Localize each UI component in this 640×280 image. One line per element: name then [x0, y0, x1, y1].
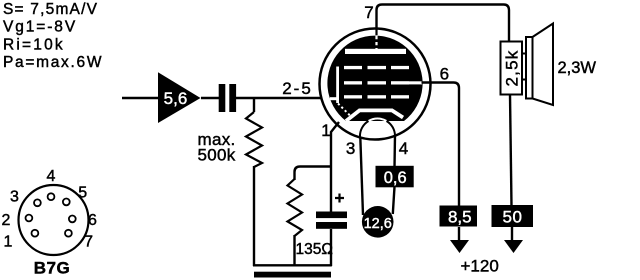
svg-text:Pa=max.6W: Pa=max.6W [3, 54, 103, 71]
wire: cathode branch to bias resistor 135 ohm [295, 167, 332, 181]
wire: 8,5 box to supply arrow [458, 227, 460, 241]
speaker LS1 cone [533, 24, 554, 106]
value label 50 (black box, anode current) [492, 205, 534, 227]
svg-text:B7G: B7G [34, 259, 70, 278]
svg-text:1: 1 [321, 121, 330, 140]
tube cathode (white chevron) [346, 110, 403, 121]
tube anode (white bar) [345, 49, 406, 54]
svg-text:500k: 500k [198, 146, 236, 165]
svg-text:2,3W: 2,3W [558, 59, 597, 77]
resistor R2 135 ohm (cathode bias, zigzag) [288, 179, 303, 236]
socket pin 3 hole [34, 199, 41, 206]
ground chassis bar [254, 272, 331, 278]
wire: anode pin 7 up and across to output transformer [377, 5, 510, 42]
speaker LS1 driver rectangle [526, 37, 533, 99]
svg-text:3: 3 [346, 139, 355, 158]
svg-text:6: 6 [88, 212, 97, 229]
meter 12,6 (black circle, heater voltage) [362, 206, 394, 238]
wire: stub top 2,5k to speaker [522, 53, 527, 55]
socket pin 5 hole [63, 199, 70, 206]
wire: 2,5k bottom down to 50 box [510, 95, 512, 207]
tube V1 envelope (circle) [320, 29, 431, 140]
capacitor C2 electrolytic (cathode bypass) plates [316, 212, 347, 219]
tube anode lead to pin 7 (dashed) [375, 28, 377, 35]
svg-text:8,5: 8,5 [448, 208, 472, 227]
svg-text:5,6: 5,6 [164, 89, 188, 108]
tube grid row 2 (white dashes) [344, 81, 362, 84]
wire: input lead left of signal source [122, 97, 158, 99]
resistor R1 max.500k (grid leak, zigzag) [246, 112, 262, 167]
wire: stub bottom 2,5k to speaker [522, 79, 527, 81]
svg-text:5: 5 [78, 185, 87, 202]
tube heater arc (filament), white where inside blob [369, 119, 387, 121]
svg-text:1: 1 [3, 234, 12, 251]
wire: C2 bottom to ground rail [330, 229, 332, 266]
transformer/load 2,5k (box) [501, 42, 523, 95]
wire: 50 box to supply arrow [511, 227, 513, 241]
wire: screen grid pin 6 right and down to supply [422, 83, 460, 207]
svg-text:12,6: 12,6 [364, 216, 392, 232]
svg-text:7: 7 [364, 3, 373, 22]
wire: heater pin 4 down to current label 0,6 [393, 135, 396, 167]
polarity + mark of C2 [335, 194, 344, 203]
svg-text:6: 6 [440, 64, 449, 83]
tube grid row 3 (white dashes) [344, 95, 362, 98]
wire: R1 bottom to ground rail [253, 166, 255, 266]
socket pin 6 hole [69, 216, 76, 223]
tube screen lead to pin 6 (white line) [409, 81, 422, 84]
B7G socket outline (bottom view) [19, 185, 89, 255]
svg-text:+120: +120 [461, 257, 499, 276]
socket pin 1 hole [32, 230, 39, 237]
wire: heater pin 3 down to meter 12,6 [360, 137, 363, 215]
value label 0,6 (black box, heater current) [376, 166, 414, 188]
svg-text:4: 4 [47, 168, 56, 185]
socket pin 4 hole [48, 193, 55, 200]
tube suppressor-to-cathode link (dashed white diagonal) [338, 104, 350, 116]
svg-text:50: 50 [503, 208, 523, 227]
tube V1 electrode block (black blob) [327, 36, 422, 121]
svg-text:2: 2 [1, 212, 10, 229]
wire: grid node down to resistor R1 [253, 97, 255, 112]
signal source triangle with level 5,6 [158, 72, 201, 123]
socket pin 2 hole [26, 215, 33, 222]
value label 8,5 (black box, screen current) [440, 206, 478, 227]
tube grid bus (white bracket, left, ties grids to pins 2-5) [336, 67, 339, 104]
ground rail wire [253, 264, 332, 266]
supply arrow (screen, to +120) [450, 240, 469, 253]
svg-text:2,5k: 2,5k [502, 50, 521, 87]
svg-text:4: 4 [399, 139, 408, 158]
svg-text:0,6: 0,6 [384, 169, 407, 187]
svg-text:7: 7 [84, 234, 93, 251]
supply arrow (anode, to +120) [504, 240, 523, 253]
wire: triangle output to coupling capacitor [201, 97, 219, 99]
capacitor C1 (coupling, two thick plates) [219, 84, 226, 112]
svg-text:3: 3 [10, 189, 19, 206]
svg-text:2-5: 2-5 [282, 79, 313, 98]
wire: R2 bottom to ground rail [293, 235, 295, 266]
socket pin 7 hole [65, 230, 72, 237]
svg-text:S= 7,5mA/V: S= 7,5mA/V [3, 1, 98, 18]
svg-text:Vg1=-8V: Vg1=-8V [3, 19, 77, 36]
wire: capacitor to tube control grid (pins 2-5) [236, 97, 331, 99]
wire: 0,6 box to meter 12,6 [393, 187, 395, 214]
wire: cathode pin 1 diagonal and down [331, 122, 339, 212]
svg-text:Ri=10k: Ri=10k [3, 36, 65, 53]
svg-text:135Ω: 135Ω [296, 241, 333, 258]
tube grid row 1 (white dashes) [344, 66, 362, 69]
